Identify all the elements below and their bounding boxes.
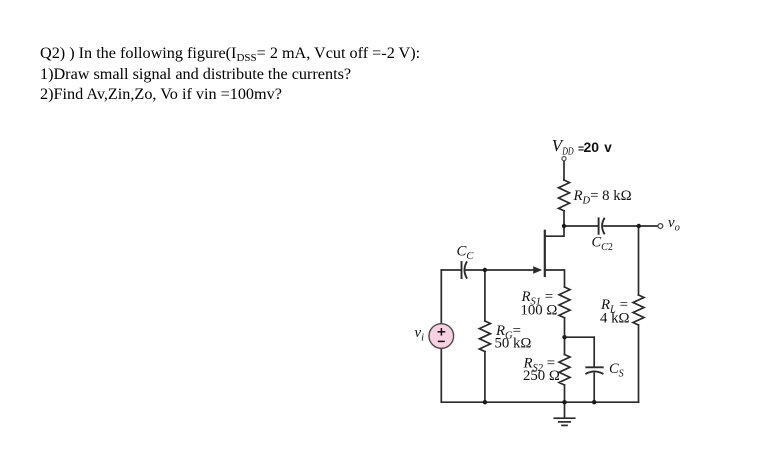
svg-text:50 kΩ: 50 kΩ bbox=[495, 336, 532, 352]
svg-text:v: v bbox=[604, 140, 612, 155]
svg-text:vi: vi bbox=[415, 325, 425, 344]
svg-text:RD= 8 kΩ: RD= 8 kΩ bbox=[573, 188, 632, 207]
svg-text:4 kΩ: 4 kΩ bbox=[600, 311, 630, 327]
svg-text:250 Ω: 250 Ω bbox=[523, 368, 560, 384]
svg-text:vo: vo bbox=[668, 215, 680, 234]
svg-text:CC2: CC2 bbox=[592, 235, 613, 254]
svg-text:CC: CC bbox=[457, 244, 475, 263]
svg-text:100 Ω: 100 Ω bbox=[521, 303, 558, 319]
svg-text:CS: CS bbox=[609, 361, 624, 380]
svg-text:VDD: VDD bbox=[552, 136, 574, 158]
svg-text:20: 20 bbox=[584, 139, 600, 155]
